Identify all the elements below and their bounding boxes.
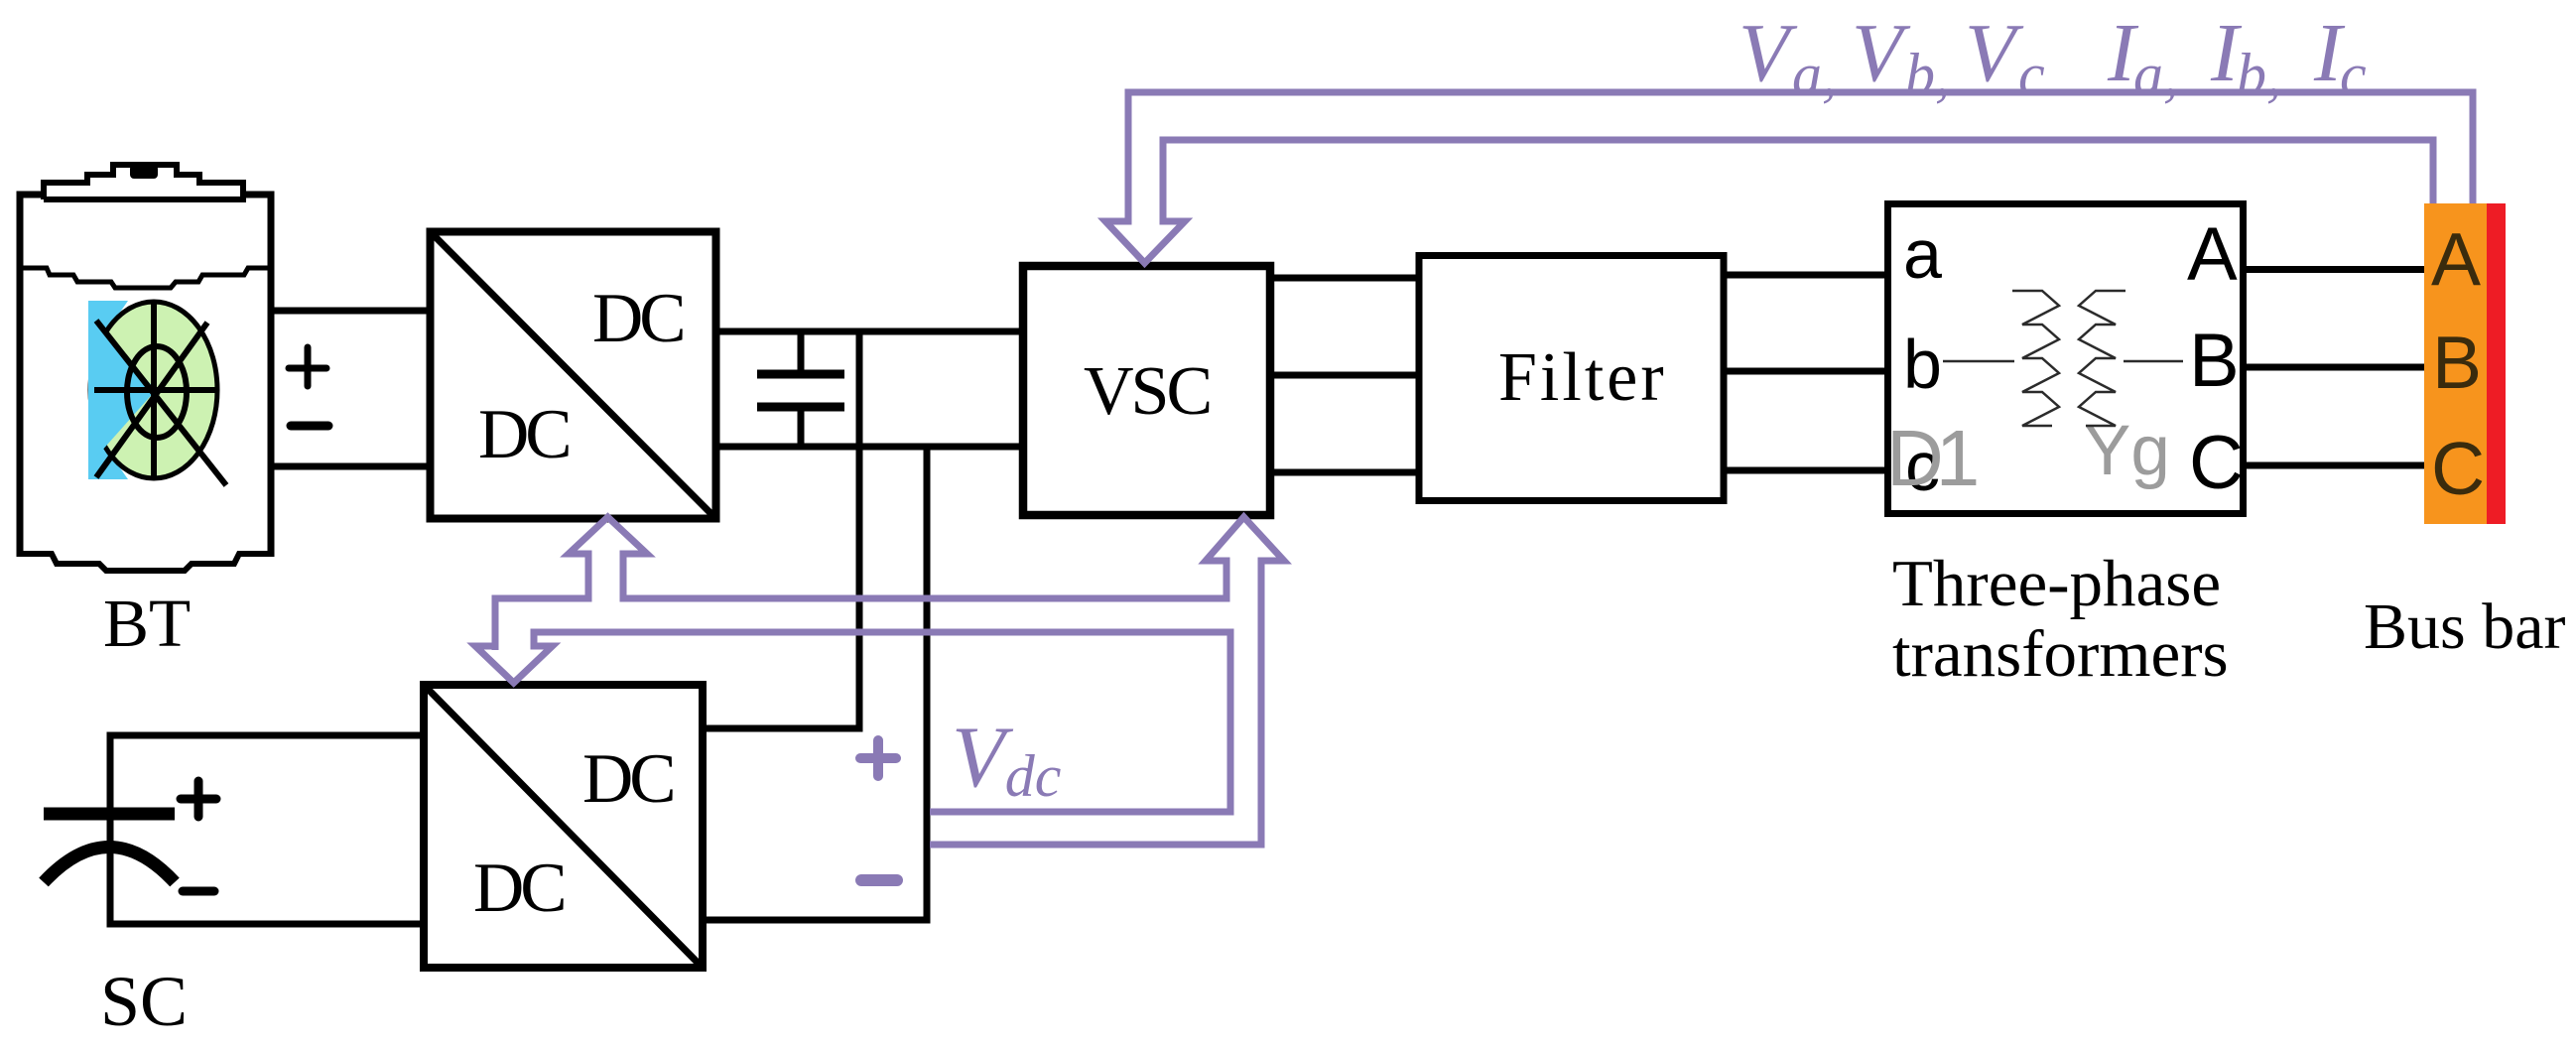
svg-text:BT: BT [103, 586, 191, 661]
svg-text:Filter: Filter [1498, 339, 1667, 416]
svg-text:a,: a, [2133, 42, 2178, 107]
svg-text:VSC: VSC [1084, 353, 1210, 430]
svg-text:a,: a, [1792, 42, 1837, 107]
svg-text:b,: b, [2237, 42, 2281, 107]
svg-text:transformers: transformers [1892, 617, 2229, 691]
svg-text:B: B [2432, 321, 2482, 404]
svg-text:b: b [1903, 326, 1942, 403]
svg-text:V: V [1852, 7, 1911, 99]
svg-text:C: C [2431, 427, 2485, 510]
svg-text:A: A [2431, 217, 2481, 301]
svg-text:V: V [1965, 7, 2024, 99]
svg-text:b,: b, [1905, 42, 1950, 107]
svg-text:DC: DC [478, 396, 569, 473]
svg-text:Bus bar: Bus bar [2364, 590, 2566, 663]
svg-text:a: a [1903, 215, 1942, 293]
svg-text:SC: SC [100, 962, 188, 1041]
svg-text:A: A [2187, 212, 2238, 297]
svg-text:c: c [2340, 42, 2367, 107]
svg-text:V: V [1739, 7, 1798, 99]
svg-text:DC: DC [473, 850, 564, 927]
svg-text:DC: DC [592, 280, 683, 357]
svg-text:DC: DC [582, 740, 673, 818]
svg-text:B: B [2189, 319, 2240, 403]
svg-text:c: c [2018, 42, 2045, 107]
svg-text:D1: D1 [1886, 414, 1977, 502]
svg-text:C: C [2189, 421, 2244, 505]
svg-text:Three-phase: Three-phase [1892, 547, 2221, 620]
svg-text:Yg: Yg [2084, 412, 2170, 490]
